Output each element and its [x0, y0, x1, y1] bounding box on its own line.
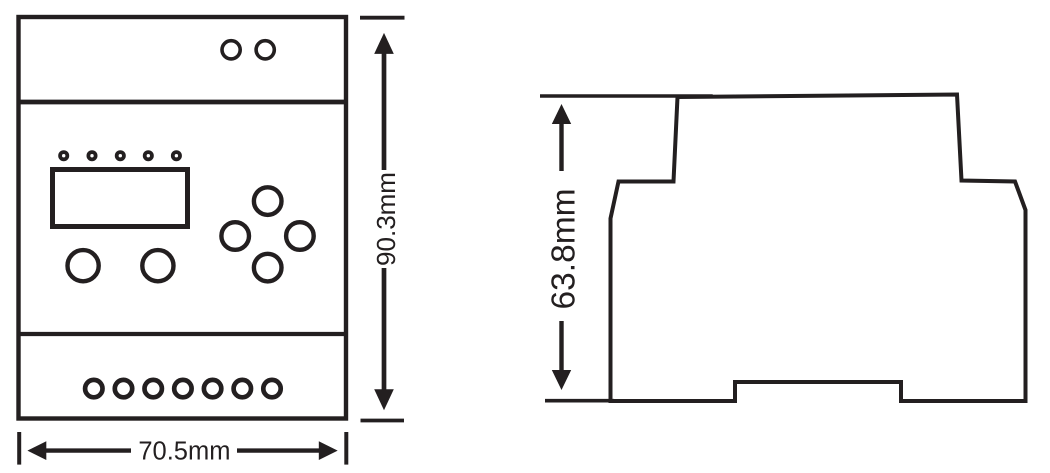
- bottom terminal hole 5: [204, 380, 221, 397]
- pushbutton left A: [68, 250, 99, 281]
- extension line bottom of side height dimension: [545, 399, 614, 403]
- svg-text:70.5mm: 70.5mm: [138, 438, 230, 466]
- width dimension right arrowhead: [319, 441, 338, 460]
- front view outer enclosure: [19, 17, 347, 419]
- bottom terminal hole 2: [115, 380, 132, 397]
- bottom terminal hole 1: [85, 380, 102, 397]
- height dimension line lower shaft: [382, 268, 387, 391]
- side view profile outline: [611, 95, 1026, 402]
- extension line top right of height dimension: [360, 16, 405, 20]
- LED dot 4: [145, 152, 152, 159]
- side height dimension lower shaft: [559, 321, 563, 374]
- nav button down: [254, 254, 282, 282]
- LCD display window: [53, 170, 188, 227]
- side height dimension top arrowhead: [552, 104, 571, 124]
- width dimension line left shaft: [45, 448, 131, 452]
- nav button left: [221, 222, 249, 250]
- nav button right: [286, 222, 314, 250]
- height dimension bottom arrowhead: [374, 389, 394, 410]
- svg-text:90.3mm: 90.3mm: [371, 172, 401, 266]
- extension tick bottom left of width dimension: [17, 432, 21, 465]
- bottom terminal hole 4: [174, 380, 191, 397]
- extension line bottom right of height dimension: [361, 419, 405, 423]
- bottom terminal hole 3: [145, 380, 162, 397]
- width dimension line right shaft: [237, 448, 320, 452]
- nav button up: [254, 187, 282, 215]
- side height dimension bottom arrowhead: [552, 370, 571, 390]
- top terminal circle 1: [222, 41, 240, 59]
- bottom terminal hole 6: [234, 380, 251, 397]
- LED dot 2: [88, 152, 95, 159]
- bottom panel divider line: [19, 332, 347, 336]
- bottom terminal hole 7: [263, 380, 280, 397]
- height dimension top arrowhead: [374, 33, 394, 54]
- LED dot 3: [117, 152, 124, 159]
- extension tick bottom right of width dimension: [344, 432, 348, 465]
- side height dimension upper shaft: [559, 122, 563, 171]
- LED dot 5: [173, 152, 180, 159]
- top terminal circle 2: [256, 41, 274, 59]
- LED dot 1: [60, 152, 67, 159]
- width dimension left arrowhead: [27, 441, 46, 460]
- top panel divider line: [19, 100, 347, 105]
- height dimension line upper shaft: [382, 52, 387, 170]
- extension line top of side height dimension: [540, 94, 713, 98]
- svg-text:63.8mm: 63.8mm: [546, 188, 583, 309]
- pushbutton left B: [142, 250, 173, 281]
